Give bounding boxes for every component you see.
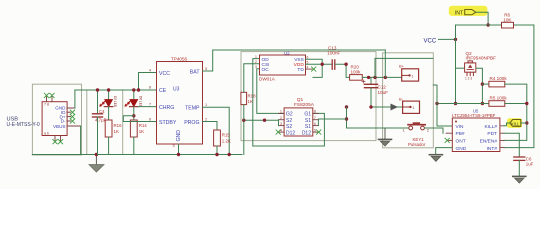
wire C6 to ground — [518, 160, 520, 176]
svg-text:1K: 1K — [114, 129, 119, 134]
junction divider riser at KILL tail — [525, 121, 528, 124]
junction main rail at C4 — [95, 153, 98, 156]
svg-text:PB#: PB# — [456, 131, 465, 137]
wire S2 row — [244, 119, 279, 121]
svg-text:TD: TD — [297, 67, 304, 73]
svg-text:ONT: ONT — [456, 139, 466, 145]
svg-text:GND: GND — [176, 130, 182, 142]
svg-text:100nF: 100nF — [327, 50, 340, 55]
svg-text:2: 2 — [280, 116, 282, 120]
LED D6 — [133, 90, 135, 100]
net flag KILL highlighted — [507, 118, 522, 128]
svg-text:Pulsador: Pulsador — [408, 142, 426, 147]
resistor R15 — [214, 130, 221, 146]
junction C12 at S1 riser — [369, 105, 372, 108]
svg-text:R15: R15 — [222, 133, 231, 138]
wire STDBY — [123, 116, 156, 122]
svg-text:10uF: 10uF — [378, 90, 389, 95]
svg-text:10K: 10K — [503, 17, 512, 22]
no-connect X on D- — [70, 119, 75, 124]
svg-text:1K: 1K — [248, 99, 253, 104]
section box protection — [241, 52, 376, 141]
wire TEMP to rail — [203, 107, 230, 154]
USB shield pins top with no-connect — [47, 96, 53, 102]
svg-text:G1: G1 — [304, 112, 311, 118]
svg-text:8: 8 — [314, 110, 316, 114]
IC U3 TP4056 body — [157, 62, 203, 145]
svg-text:7 8: 7 8 — [44, 102, 49, 106]
svg-text:6: 6 — [149, 117, 151, 121]
svg-text:TEMP: TEMP — [185, 106, 200, 112]
svg-text:D12: D12 — [302, 130, 311, 136]
arrow probe into B- — [391, 104, 399, 111]
wire BAT down to node — [384, 50, 386, 77]
junction VDD at VSS crossing — [321, 62, 324, 65]
junction R4 row — [481, 82, 484, 85]
resistor R4 — [482, 83, 489, 85]
capacitor C6 — [514, 156, 525, 158]
no-connect X on TD — [306, 68, 313, 70]
svg-text:PROG: PROG — [184, 120, 199, 126]
svg-text:GND: GND — [456, 146, 467, 152]
svg-text:R5 100k: R5 100k — [490, 95, 508, 100]
wire BAT to protection section — [203, 50, 386, 71]
no-connect X on ID — [70, 110, 75, 115]
svg-text:6: 6 — [314, 122, 316, 126]
capacitor C12 polarized — [370, 77, 372, 84]
svg-text:1: 1 — [255, 55, 257, 59]
wire VCC pin tap to rail — [139, 73, 157, 91]
wire R6 row — [456, 24, 534, 26]
svg-text:PDT: PDT — [487, 131, 497, 137]
svg-text:VCC: VCC — [424, 39, 437, 45]
svg-text:8: 8 — [149, 86, 151, 90]
pin D12a Q1 no-connect — [279, 131, 285, 133]
pin G1 Q1 — [313, 112, 319, 114]
svg-text:5: 5 — [205, 67, 207, 71]
svg-text:5: 5 — [314, 128, 316, 132]
wire VCC vertical — [455, 25, 457, 104]
capacitor C4 — [97, 90, 99, 114]
svg-text:U-E-MTSS-Y-0: U-E-MTSS-Y-0 — [7, 122, 40, 128]
svg-text:OC: OC — [262, 67, 270, 73]
pin GND of USB — [67, 107, 75, 109]
wire R20 right to jumper B+ — [362, 76, 401, 78]
wire U3 GND to rail — [178, 144, 180, 155]
svg-text:2: 2 — [255, 60, 257, 64]
svg-text:1.2K: 1.2K — [222, 139, 231, 144]
wire node up and right — [375, 58, 433, 77]
svg-text:R18: R18 — [248, 94, 257, 99]
pin ID of USB — [67, 111, 70, 113]
wire top rail VBUS/CE — [75, 89, 157, 91]
svg-text:TP4056: TP4056 — [171, 57, 188, 62]
junction VCC at R5 row — [454, 102, 457, 105]
junction LED D6 column STDBY tap — [132, 114, 135, 117]
svg-text:D6 LED: D6 LED — [138, 96, 142, 108]
svg-text:U3: U3 — [173, 87, 180, 93]
ground main — [95, 155, 97, 165]
wire C12 bottom to jumper B- — [371, 88, 403, 107]
svg-text:STDBY: STDBY — [159, 120, 177, 126]
svg-text:a b: a b — [44, 132, 49, 136]
junction top rail at LED D6 — [132, 88, 135, 91]
svg-text:1 2 3: 1 2 3 — [465, 77, 472, 81]
resistor R5 — [489, 101, 505, 107]
junction S1 riser top — [345, 105, 348, 108]
svg-text:VIN: VIN — [456, 124, 465, 130]
pin S2a Q1 — [279, 119, 285, 121]
pin S1b Q1 — [313, 125, 319, 127]
net flag INT highlighted — [449, 6, 488, 16]
IC U5 LTC2954 body — [452, 118, 500, 152]
junction node at VM wire — [373, 76, 376, 79]
junction node at BAT wire — [384, 76, 387, 79]
connector J1 USB body — [42, 102, 67, 136]
junction rail at U3 GND — [177, 153, 180, 156]
wire rail right end up to S2 node — [243, 120, 245, 154]
svg-text:VBUS: VBUS — [53, 124, 66, 129]
svg-text:KILL: KILL — [511, 121, 520, 126]
svg-text:D5 LED: D5 LED — [113, 96, 117, 108]
junction node at C12 — [367, 76, 370, 79]
svg-text:R16: R16 — [114, 123, 123, 128]
svg-text:1: 1 — [412, 106, 414, 110]
junction S2 wire mid — [263, 119, 266, 122]
LED D5 — [108, 90, 110, 100]
svg-text:INT#: INT# — [487, 146, 498, 152]
wire R5 row — [437, 103, 489, 105]
svg-text:1K: 1K — [139, 129, 144, 134]
junction S2 node at R18 — [242, 119, 245, 122]
junction VIN riser at R5 row — [435, 102, 438, 105]
wire USB GND up to top rail — [74, 90, 76, 108]
svg-text:3: 3 — [255, 65, 257, 69]
ground at C6 — [513, 175, 526, 177]
svg-text:BAT: BAT — [190, 69, 201, 75]
svg-text:6: 6 — [307, 55, 309, 59]
resistor R14 — [130, 120, 137, 137]
wire INT flag to R6 node — [476, 12, 488, 25]
wire C13 right to R20 — [335, 64, 349, 77]
section box switch — [383, 53, 434, 148]
svg-text:3: 3 — [173, 144, 175, 148]
svg-text:CHRG: CHRG — [159, 105, 174, 111]
wire PROG to R15 — [203, 122, 218, 131]
junction top rail at LED D5 — [107, 88, 110, 91]
svg-text:S2: S2 — [286, 124, 292, 130]
resistor R20 — [350, 75, 363, 81]
wire flag tail to divider riser — [521, 122, 527, 124]
junction divider riser at R5 — [525, 102, 528, 105]
pin VBUS of USB — [67, 125, 81, 127]
svg-text:IRF9540NPBF: IRF9540NPBF — [466, 56, 497, 61]
pin S1a Q1 — [313, 119, 319, 121]
svg-text:4: 4 — [280, 128, 282, 132]
junction top rail at C4 — [96, 88, 99, 91]
svg-text:100k: 100k — [351, 69, 362, 74]
wire S1 node to KEY1 — [347, 127, 409, 129]
svg-text:CE: CE — [159, 88, 167, 94]
svg-text:3: 3 — [280, 122, 282, 126]
pin D+ of USB — [67, 116, 70, 118]
wire S2 pins tie — [278, 120, 280, 126]
svg-text:C4: C4 — [99, 109, 105, 114]
svg-text:7: 7 — [149, 102, 151, 106]
svg-text:7: 7 — [314, 116, 316, 120]
svg-text:INT: INT — [455, 11, 464, 17]
svg-text:2: 2 — [205, 117, 207, 121]
svg-text:OD: OD — [262, 57, 270, 63]
wire KILL# to flag — [504, 123, 510, 126]
junction S1 node — [345, 117, 348, 120]
svg-text:S1: S1 — [305, 124, 311, 130]
svg-text:4: 4 — [149, 69, 151, 73]
wire S1 riser — [346, 107, 348, 128]
junction rail at TEMP — [228, 153, 231, 156]
tiny pin ticks U5 right — [500, 126, 504, 148]
wire bottom ground rail — [32, 154, 242, 156]
wire R6 right down east edge to INT# — [504, 25, 534, 148]
svg-text:LTC2954-ITS8-1#PBF: LTC2954-ITS8-1#PBF — [452, 113, 496, 118]
section box indicators — [87, 90, 123, 155]
junction C13 right node — [344, 62, 347, 65]
ground at KEY1 — [384, 128, 386, 139]
svg-text:EN/EN#: EN/EN# — [480, 139, 498, 145]
resistor R6 — [502, 22, 514, 28]
pin S2b Q1 — [279, 125, 285, 127]
wire CHRG to LED D6 cathode — [138, 106, 156, 108]
capacitor C13 — [332, 60, 335, 69]
pin D12b Q1 no-connect — [313, 131, 319, 133]
svg-text:R14: R14 — [139, 123, 148, 128]
svg-text:D12: D12 — [286, 130, 295, 136]
wire Q2 right to R4 — [476, 68, 482, 103]
resistor R18 — [241, 92, 247, 104]
wire USB VBUS down to bottom rail — [80, 126, 82, 155]
svg-text:1: 1 — [412, 75, 414, 79]
svg-text:KILL#: KILL# — [484, 124, 497, 130]
svg-text:DW01A: DW01A — [259, 77, 276, 82]
svg-text:VCC: VCC — [159, 71, 170, 77]
wire S1 pins tie and out — [318, 119, 346, 126]
junction R6 row at INT — [486, 23, 489, 26]
svg-text:FS8205A: FS8205A — [294, 102, 315, 108]
wire OD long loop to G1 — [253, 59, 325, 146]
svg-text:G2: G2 — [286, 112, 293, 118]
svg-text:R4 100k: R4 100k — [490, 76, 508, 81]
svg-text:C12: C12 — [378, 85, 387, 90]
svg-text:1: 1 — [205, 103, 207, 107]
resistor R16 — [105, 120, 112, 137]
wire VSS to bypass riser — [306, 59, 323, 77]
IC U2 DW01A body — [260, 55, 306, 75]
junction VCC node — [454, 38, 457, 41]
svg-text:1: 1 — [280, 110, 282, 114]
transistor Q1 FS8205A body — [284, 108, 313, 136]
pin D- of USB — [67, 120, 70, 122]
pin G2 Q1 — [279, 112, 285, 114]
wire OC to G2 — [257, 69, 284, 114]
wire CSI to R18 top — [244, 64, 260, 93]
svg-text:1uF: 1uF — [526, 162, 534, 167]
wire VDD row — [306, 63, 332, 65]
wire PDT down to C6 — [504, 133, 519, 157]
wire R4 right to pull divider riser — [504, 84, 527, 140]
wire R18 bottom to S2 node — [243, 105, 245, 121]
svg-text:B+: B+ — [399, 64, 405, 69]
svg-text:U2: U2 — [284, 51, 290, 56]
junction top rail at VCC tap — [137, 88, 140, 91]
wire VIN riser — [437, 85, 452, 126]
junction rail at R15 — [215, 153, 218, 156]
junction R5 row at R4 riser — [481, 102, 484, 105]
ground at U5 GND — [429, 154, 442, 156]
no-connect X on D+ — [70, 114, 75, 119]
USB shield pins bottom with no-connect — [55, 136, 61, 142]
section box USB — [32, 84, 81, 155]
